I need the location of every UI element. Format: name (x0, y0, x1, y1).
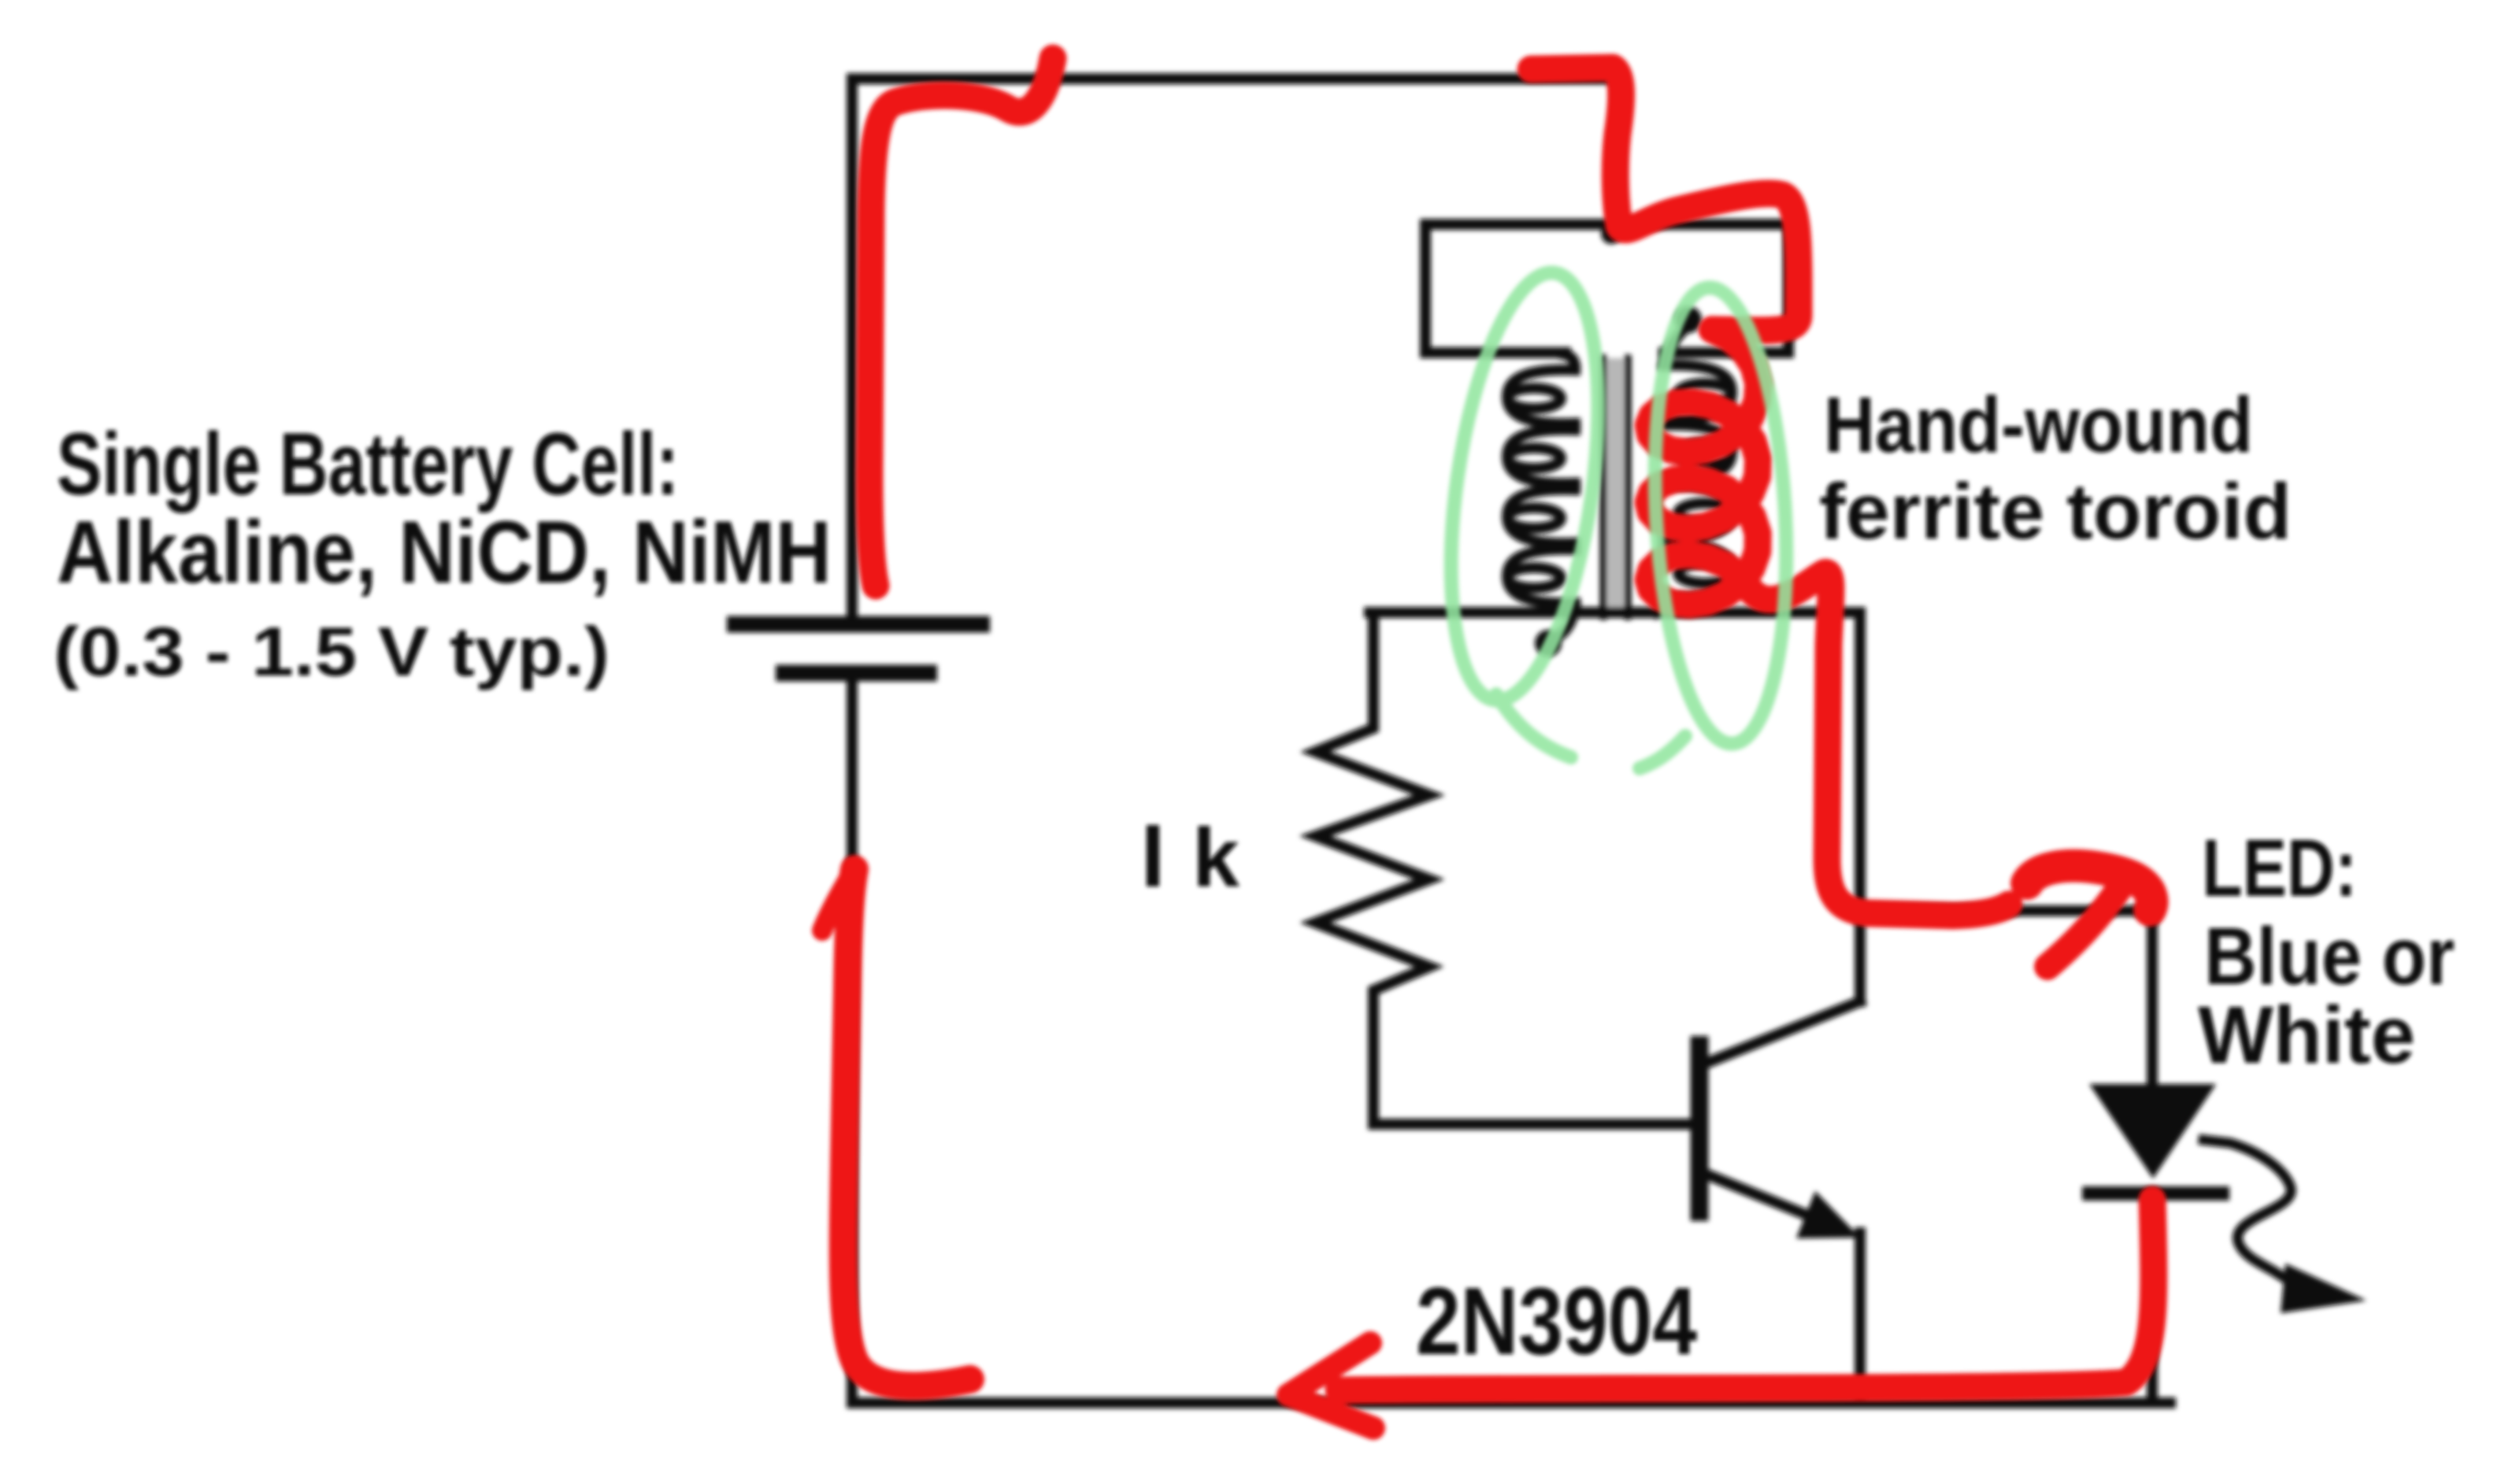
wire battery negative lead and bottom rail (852, 682, 2170, 1403)
green loop around primary winding (1428, 264, 1622, 710)
green hand-drawn winding loops (1428, 264, 1797, 768)
wire LED cathode to bottom rail (2147, 1200, 2158, 1403)
transformer T1 core (1603, 358, 1628, 616)
red stroke along rail, down to transformer and spiral around secondary (1531, 68, 2009, 916)
svg-text:2N3904: 2N3904 (1416, 1267, 1697, 1375)
battery B1 negative plate (776, 665, 937, 682)
transformer T1 primary phase dot (bottom) (1535, 630, 1562, 657)
LED D1 squiggle arrowhead (2281, 1264, 2366, 1313)
svg-text:(0.3 - 1.5 V typ.): (0.3 - 1.5 V typ.) (54, 612, 610, 690)
transistor Q1 emitter arrowhead (1796, 1191, 1860, 1238)
battery B1 positive plate (727, 616, 990, 633)
red hand-drawn current-path annotation (822, 58, 2154, 1428)
wire collector node to LED anode (1860, 911, 2152, 1088)
LED D1 cathode bar (2082, 1186, 2229, 1201)
red bottom arrowhead lower barb (1288, 1395, 1373, 1428)
transformer T1 primary winding (left) (1507, 354, 1575, 640)
red stroke top-left corner down battery lead (869, 58, 1053, 586)
red stroke bottom-left corner up battery lead (843, 869, 970, 1386)
svg-text:ferrite toroid: ferrite toroid (1819, 468, 2292, 556)
svg-text:k: k (1192, 812, 1240, 905)
red stroke LED cathode down and along bottom rail (1339, 1200, 2154, 1390)
red arrow lower barb at LED branch (2047, 886, 2121, 967)
svg-text:LED:: LED: (2202, 823, 2357, 913)
red bottom arrowhead upper barb (1288, 1343, 1370, 1395)
green loop secondary tail (1640, 736, 1685, 768)
svg-text:Blue or: Blue or (2204, 911, 2455, 1001)
svg-text:White: White (2198, 990, 2415, 1080)
svg-text:Single Battery Cell:: Single Battery Cell: (57, 415, 679, 513)
transformer T1 secondary phase dot (top) (1675, 306, 1702, 333)
green loop primary tail (1496, 694, 1571, 757)
red up-arrow barb (822, 869, 854, 931)
wire transformer bottom node to collector (1369, 612, 1860, 1001)
transistor Q1 emitter lead (1707, 1175, 1835, 1227)
wire emitter to bottom rail (1855, 1233, 1866, 1403)
resistor R1 1k with leads and base wire (1315, 612, 1693, 1124)
green loop around secondary winding (1644, 284, 1797, 747)
svg-text:Hand-wound: Hand-wound (1824, 381, 2253, 469)
svg-text:Alkaline, NiCD, NiMH: Alkaline, NiCD, NiMH (57, 503, 832, 601)
black schematic artwork (727, 79, 2366, 1403)
red curved arrow pointing at LED branch (2027, 866, 2152, 910)
transformer T1 secondary winding (right) (1657, 327, 1732, 612)
wire transformer top box (1425, 224, 1788, 353)
LED D1 anode triangle (2089, 1084, 2216, 1178)
LED D1 light emission squiggle arrow (2203, 1140, 2298, 1286)
transistor Q1 collector lead (1707, 1001, 1860, 1063)
label resistor value 1 (drawn as plain bar) (1147, 825, 1159, 886)
transistor Q1 base bar (1691, 1036, 1709, 1221)
wire battery positive lead and top rail to transformer (852, 79, 1618, 618)
junction dot at transformer top feed (1601, 224, 1621, 244)
